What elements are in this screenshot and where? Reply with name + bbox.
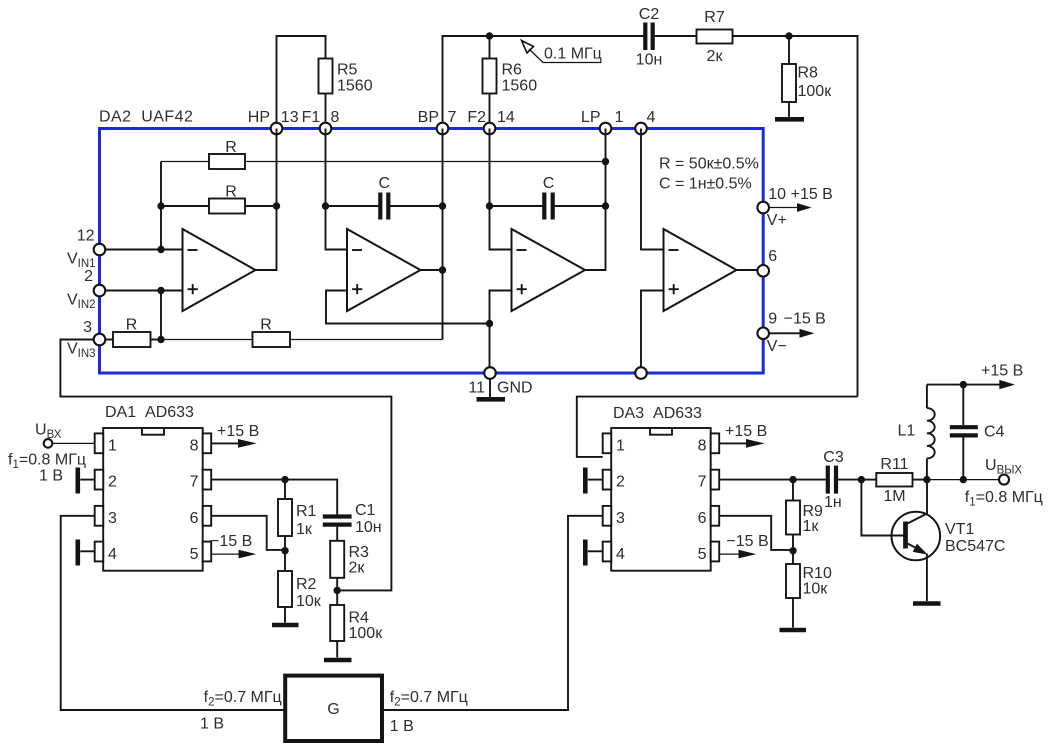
svg-text:12: 12 — [77, 228, 95, 245]
multiplier DA1 AD633 package — [95, 404, 212, 571]
-15 V arrow DA3 pin 5 — [719, 533, 768, 558]
svg-text:4: 4 — [647, 109, 656, 126]
svg-text:1560: 1560 — [502, 78, 538, 95]
wire DA1 pin 7 to R1 and C1 — [211, 480, 337, 517]
ground bar DA3 pin 4 — [585, 540, 602, 566]
svg-text:R: R — [126, 317, 138, 334]
node R8 top — [785, 32, 792, 39]
svg-text:F2: F2 — [467, 109, 486, 126]
wire VIN3 external to R3-R4 node — [60, 340, 391, 591]
svg-text:5: 5 — [190, 546, 199, 563]
svg-text:R2: R2 — [296, 576, 317, 593]
wire DA3 pin 7 to R9 and C3 — [719, 479, 826, 481]
pin 6 output — [757, 248, 777, 277]
inductor L1 — [898, 385, 935, 480]
pin LP 1 — [581, 109, 624, 134]
svg-text:1 В: 1 В — [39, 468, 63, 485]
multiplier DA3 AD633 package — [603, 405, 720, 571]
svg-text:C: C — [543, 175, 555, 192]
svg-text:−15 В: −15 В — [210, 533, 252, 550]
svg-text:3: 3 — [108, 510, 117, 527]
svg-text:BC547C: BC547C — [945, 538, 1005, 555]
capacitor C1 — [323, 502, 382, 541]
pin 10 V+ with +15 V arrow — [757, 186, 832, 229]
internal summing node bus — [160, 162, 162, 340]
svg-text:R8: R8 — [798, 65, 819, 82]
svg-text:100к: 100к — [798, 83, 833, 100]
wire output node to UVYX — [927, 479, 1000, 481]
svg-text:3: 3 — [83, 319, 92, 336]
svg-text:C4: C4 — [984, 424, 1005, 441]
svg-text:R = 50к±0.5%: R = 50к±0.5% — [659, 156, 759, 173]
node R9 top — [789, 476, 796, 483]
wire pin12 to op1 inverting input — [105, 249, 183, 251]
resistor R2 — [278, 550, 322, 623]
capacitor C3 — [823, 449, 861, 511]
svg-text:+15 В: +15 В — [981, 363, 1023, 380]
wire R7 to right rail down to lower net — [733, 36, 858, 397]
node op1 output feedback — [273, 202, 280, 209]
svg-text:10к: 10к — [296, 593, 322, 610]
resistor R9 — [786, 480, 823, 550]
pin 9 V- with -15 V arrow — [757, 311, 825, 356]
wire G output to DA3 pin 3 — [382, 516, 603, 710]
resistor R6 — [483, 36, 538, 129]
ground bar DA1 pin 2 — [78, 468, 95, 494]
node R1-R2 junction — [281, 547, 288, 554]
svg-text:+15 В: +15 В — [217, 423, 259, 440]
svg-text:1: 1 — [616, 438, 625, 455]
svg-text:R: R — [225, 184, 237, 201]
svg-text:C: C — [379, 175, 391, 192]
wire BP pin riser and top rail to C2 — [443, 36, 645, 129]
svg-text:13: 13 — [281, 109, 299, 126]
node C3 to base and R11 — [858, 476, 865, 483]
ground bar pin 11 — [477, 397, 506, 402]
svg-text:6: 6 — [768, 248, 777, 265]
+15 V arrow supply top right — [927, 363, 1023, 390]
svg-text:7: 7 — [190, 474, 199, 491]
pin 3 VIN3 — [67, 319, 105, 360]
svg-text:8: 8 — [331, 109, 340, 126]
capacitor C2 — [636, 6, 663, 69]
resistor R7 — [697, 9, 733, 65]
svg-text:14: 14 — [497, 109, 515, 126]
svg-text:R10: R10 — [803, 565, 832, 582]
svg-text:L1: L1 — [898, 423, 916, 440]
svg-text:BP: BP — [418, 109, 439, 126]
internal resistor R feedback row 2 — [161, 184, 277, 214]
resistor R4 — [330, 605, 383, 658]
wire DA1 pin 3 to generator — [61, 516, 286, 710]
svg-text:1М: 1М — [883, 488, 905, 505]
svg-text:10н: 10н — [355, 519, 382, 536]
svg-text:R4: R4 — [349, 610, 370, 627]
callout 0.1 МГц with cursor arrow — [522, 41, 602, 63]
svg-text:DA2 UAF42: DA2 UAF42 — [99, 109, 193, 126]
svg-text:VIN3: VIN3 — [67, 341, 96, 361]
node collector-L1 — [923, 476, 930, 483]
svg-text:R1: R1 — [296, 503, 317, 520]
resistor R3 — [330, 541, 369, 605]
svg-text:1: 1 — [108, 438, 117, 455]
generator G box — [285, 676, 382, 741]
op-amp A4 buffer — [641, 129, 758, 368]
svg-text:R7: R7 — [704, 9, 725, 26]
svg-text:DA1 AD633: DA1 AD633 — [105, 404, 194, 421]
op-amp A1 — [183, 129, 277, 312]
resistor R5 — [319, 59, 373, 129]
label f2 right of G — [390, 689, 468, 735]
pin 12 VIN1 — [67, 228, 105, 271]
op-amp filter IC DA2 UAF42 blue outline — [100, 129, 764, 374]
ground under R8 — [775, 117, 804, 122]
svg-text:VT1: VT1 — [945, 521, 974, 538]
internal resistor R at VIN3 (left) — [105, 317, 161, 348]
svg-text:8: 8 — [190, 438, 199, 455]
svg-text:R6: R6 — [502, 62, 523, 79]
svg-text:−15 В: −15 В — [726, 533, 768, 550]
node bus dots — [157, 202, 164, 209]
resistor R11 — [861, 456, 927, 505]
resistor R1 — [278, 480, 317, 550]
svg-text:10н: 10н — [636, 52, 663, 69]
pin 4 — [635, 109, 655, 134]
svg-text:f2=0.7 МГц: f2=0.7 МГц — [390, 689, 468, 709]
svg-text:R3: R3 — [349, 544, 370, 561]
node R9-R10 junction — [789, 547, 796, 554]
label f2 left of G — [200, 689, 282, 733]
pin HP 13 — [248, 109, 299, 134]
wire HP pin riser to R5 top — [277, 36, 326, 129]
op-amp A3 integrator — [486, 129, 609, 368]
svg-text:2: 2 — [84, 268, 93, 285]
svg-text:C = 1н±0.5%: C = 1н±0.5% — [659, 176, 752, 193]
wire DA1 pin 6 to R1-R2 node — [211, 516, 285, 550]
svg-text:1 В: 1 В — [200, 716, 224, 733]
svg-text:C3: C3 — [823, 449, 844, 466]
ground under R4 — [324, 658, 352, 663]
svg-text:0.1 МГц: 0.1 МГц — [544, 46, 602, 63]
pin F2 14 — [467, 109, 515, 134]
svg-text:UВЫХ: UВЫХ — [985, 457, 1022, 477]
svg-text:6: 6 — [698, 510, 707, 527]
svg-text:C2: C2 — [639, 6, 660, 23]
svg-text:C1: C1 — [355, 502, 376, 519]
svg-text:R: R — [260, 317, 272, 334]
svg-text:V+: V+ — [767, 212, 787, 229]
wire DA3 pin 6 to R9-R10 node — [719, 516, 793, 550]
svg-text:8: 8 — [698, 438, 707, 455]
svg-text:−15 В: −15 В — [784, 311, 826, 328]
pin F1 8 — [302, 109, 340, 134]
svg-text:DA3 AD633: DA3 AD633 — [613, 405, 702, 422]
svg-text:1 В: 1 В — [390, 718, 414, 735]
node UVYX output terminal — [965, 457, 1043, 509]
svg-text:HP: HP — [248, 109, 270, 126]
ground under VT1 emitter — [913, 601, 941, 606]
node C4 bottom — [960, 476, 967, 483]
svg-text:1: 1 — [615, 109, 624, 126]
svg-text:2: 2 — [108, 474, 117, 491]
+15 V arrow DA3 pin 8 — [719, 423, 767, 448]
svg-text:3: 3 — [616, 510, 625, 527]
svg-text:2к: 2к — [707, 48, 724, 65]
svg-text:2: 2 — [616, 474, 625, 491]
-15 V arrow DA1 pin 5 — [210, 533, 256, 558]
svg-text:GND: GND — [497, 380, 533, 397]
svg-text:11: 11 — [468, 380, 485, 397]
pin BP 7 — [418, 109, 457, 134]
svg-text:+15 В: +15 В — [791, 186, 833, 203]
svg-text:f1=0.8 МГц: f1=0.8 МГц — [965, 489, 1043, 509]
svg-text:R11: R11 — [880, 456, 908, 473]
ground under R10 — [780, 628, 807, 633]
svg-text:7: 7 — [698, 474, 707, 491]
pin 2 VIN2 — [67, 268, 105, 311]
svg-text:4: 4 — [108, 546, 117, 563]
svg-text:2к: 2к — [349, 560, 366, 577]
svg-text:+15 В: +15 В — [725, 423, 767, 440]
svg-text:G: G — [327, 701, 339, 718]
svg-text:100к: 100к — [349, 625, 384, 642]
svg-text:4: 4 — [616, 546, 625, 563]
svg-text:9: 9 — [768, 311, 777, 328]
node R6 top — [486, 32, 493, 39]
ground bar DA3 pin 2 — [585, 468, 602, 494]
svg-text:10к: 10к — [803, 581, 829, 598]
svg-text:6: 6 — [190, 510, 199, 527]
pin 11 GND — [468, 367, 532, 397]
ground under R2 — [272, 623, 299, 628]
internal resistor R to BP (right) — [161, 317, 443, 348]
svg-text:LP: LP — [581, 109, 601, 126]
svg-text:F1: F1 — [302, 109, 321, 126]
svg-text:5: 5 — [698, 546, 707, 563]
svg-text:R5: R5 — [337, 62, 358, 79]
svg-text:1н: 1н — [824, 494, 842, 511]
node R3-R4 junction — [334, 587, 341, 594]
wire C2 to R7 — [655, 35, 697, 37]
+15 V arrow DA1 pin 8 — [211, 423, 259, 448]
svg-text:7: 7 — [448, 109, 457, 126]
svg-text:1к: 1к — [296, 521, 313, 538]
capacitor C4 — [950, 385, 1005, 480]
op-amp A2 integrator — [322, 129, 490, 340]
resistor R8 — [782, 36, 832, 117]
svg-text:1560: 1560 — [337, 78, 373, 95]
svg-text:1к: 1к — [803, 518, 820, 535]
internal resistor R feedback row 1 — [161, 139, 606, 169]
svg-text:R: R — [225, 139, 237, 156]
pin on bottom edge (op4 + return) — [635, 367, 647, 379]
wire pin2 to op1 non-inverting input — [105, 290, 183, 292]
node UBX input terminal — [8, 422, 95, 485]
node R1 top — [281, 476, 288, 483]
svg-text:VIN2: VIN2 — [67, 292, 96, 312]
svg-text:10: 10 — [768, 186, 786, 203]
ground bar DA1 pin 4 — [78, 540, 95, 566]
transistor VT1 BC547C — [861, 480, 1005, 601]
svg-text:V−: V− — [767, 338, 787, 355]
wire HP signal to DA3 pin 1 — [577, 397, 858, 457]
resistor R10 — [786, 550, 832, 628]
svg-text:f2=0.7 МГц: f2=0.7 МГц — [204, 689, 282, 709]
